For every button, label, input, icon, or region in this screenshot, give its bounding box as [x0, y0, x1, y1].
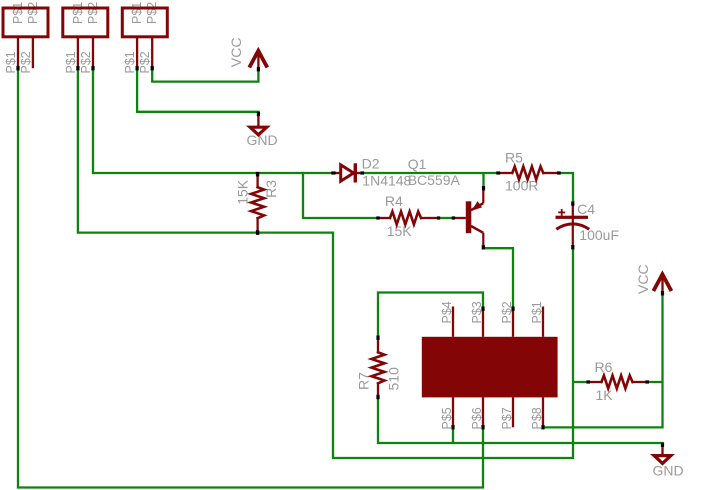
svg-text:P$1: P$1 — [530, 301, 544, 323]
svg-text:15K: 15K — [235, 179, 251, 205]
svg-text:C4: C4 — [577, 201, 595, 217]
svg-text:P$1: P$1 — [130, 2, 144, 24]
svg-text:P$7: P$7 — [500, 407, 514, 429]
svg-text:1N4148: 1N4148 — [362, 172, 411, 188]
svg-text:R4: R4 — [385, 193, 403, 209]
svg-text:P$1: P$1 — [71, 2, 85, 24]
svg-text:510: 510 — [386, 367, 402, 391]
svg-text:P$2: P$2 — [138, 51, 152, 73]
svg-text:100uF: 100uF — [579, 227, 619, 243]
svg-text:VCC: VCC — [635, 264, 651, 294]
svg-text:VCC: VCC — [228, 38, 244, 68]
svg-text:R7: R7 — [356, 372, 372, 390]
svg-text:R6: R6 — [595, 359, 613, 375]
svg-text:P$1: P$1 — [4, 51, 18, 73]
svg-text:P$1: P$1 — [64, 51, 78, 73]
svg-text:P$2: P$2 — [86, 2, 100, 24]
svg-text:Q1: Q1 — [408, 156, 427, 172]
svg-text:P$2: P$2 — [79, 51, 93, 73]
svg-text:1K: 1K — [596, 387, 614, 403]
svg-text:P$2: P$2 — [500, 301, 514, 323]
svg-text:100R: 100R — [505, 178, 538, 194]
svg-text:P$2: P$2 — [145, 2, 159, 24]
svg-text:P$1: P$1 — [123, 51, 137, 73]
svg-text:BC559A: BC559A — [408, 172, 461, 188]
svg-text:GND: GND — [247, 132, 278, 148]
svg-text:R5: R5 — [505, 149, 523, 165]
svg-text:P$2: P$2 — [26, 2, 40, 24]
svg-text:P$3: P$3 — [470, 301, 484, 323]
svg-text:P$2: P$2 — [19, 51, 33, 73]
svg-text:P$4: P$4 — [440, 301, 454, 323]
svg-text:GND: GND — [653, 463, 684, 479]
svg-text:D2: D2 — [362, 155, 380, 171]
svg-text:P$1: P$1 — [11, 2, 25, 24]
svg-text:15K: 15K — [387, 223, 413, 239]
